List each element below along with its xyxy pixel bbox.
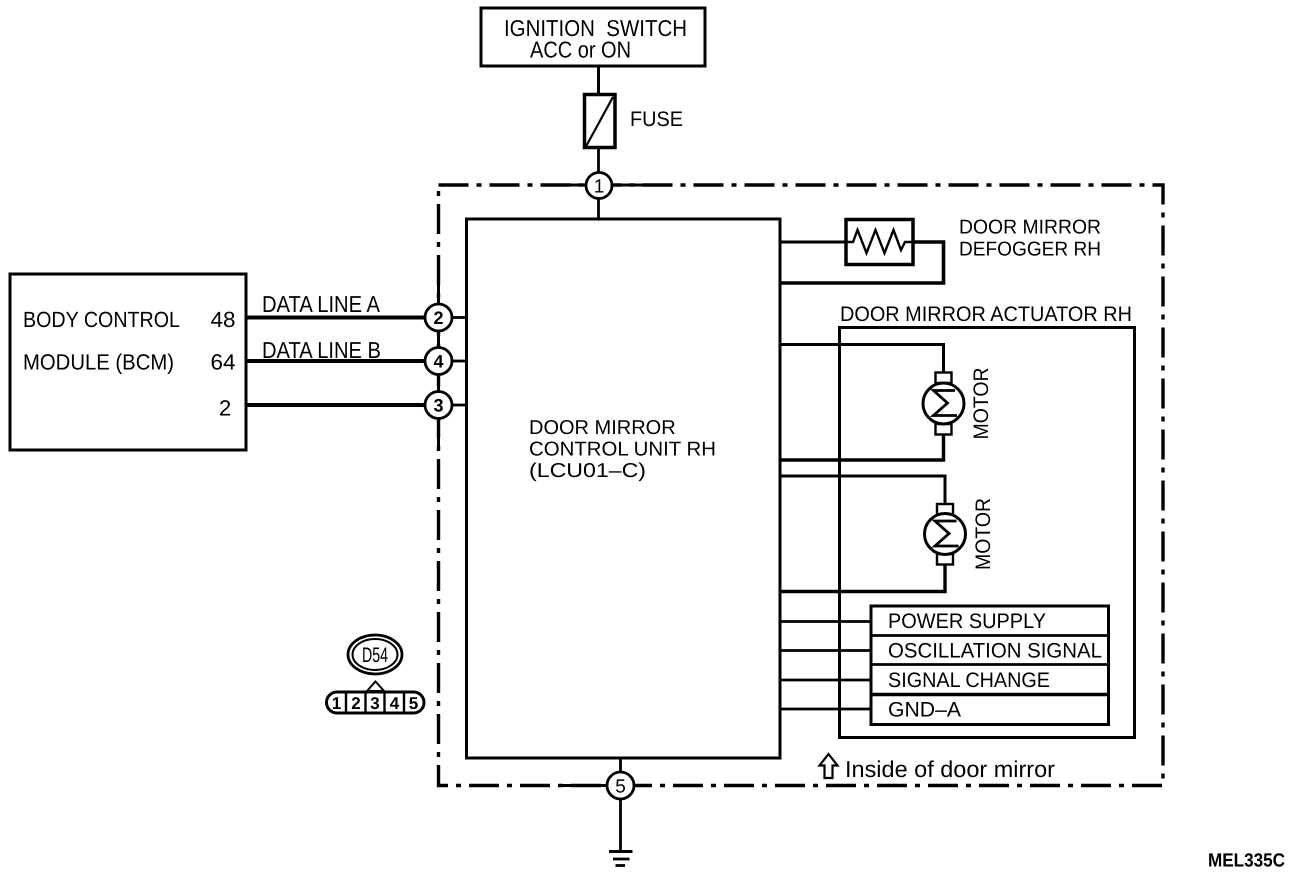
- svg-text:1: 1: [594, 177, 605, 198]
- svg-text:64: 64: [211, 350, 236, 375]
- svg-text:POWER SUPPLY: POWER SUPPLY: [888, 610, 1046, 633]
- svg-text:3: 3: [433, 396, 443, 416]
- node 4: [425, 348, 452, 375]
- wire control unit to SIGNAL CHANGE: [780, 679, 871, 682]
- door mirror boundary (dash-dot): [439, 185, 1164, 786]
- svg-text:(LCU01–C): (LCU01–C): [529, 460, 646, 482]
- connector D54: [348, 635, 402, 674]
- svg-text:2: 2: [433, 308, 443, 328]
- fuse: [585, 95, 684, 148]
- ground: [609, 852, 633, 866]
- defogger resistor: [846, 220, 913, 265]
- wire node 2 to control unit: [452, 316, 467, 319]
- wire node 4 to control unit: [452, 360, 467, 363]
- svg-text:Inside of door mirror: Inside of door mirror: [845, 756, 1055, 782]
- svg-text:DATA LINE A: DATA LINE A: [262, 291, 381, 317]
- label DOOR MIRROR DEFOGGER RH: [959, 217, 1101, 261]
- svg-text:2: 2: [351, 694, 360, 713]
- wire control unit to motor 2: [780, 476, 945, 504]
- wire node 5 to ground: [619, 799, 622, 852]
- node 2: [425, 304, 452, 331]
- boundary solid stubs at node 1: [560, 184, 586, 187]
- wire motor 2 return: [780, 565, 945, 592]
- svg-text:MOTOR: MOTOR: [972, 498, 995, 570]
- svg-text:48: 48: [211, 307, 236, 332]
- wire BCM 2 to node 3: [246, 403, 425, 407]
- svg-text:OSCILLATION SIGNAL: OSCILLATION SIGNAL: [888, 640, 1102, 663]
- svg-text:ACC or ON: ACC or ON: [530, 37, 631, 63]
- svg-text:DOOR MIRROR ACTUATOR RH: DOOR MIRROR ACTUATOR RH: [840, 303, 1132, 326]
- wire control unit to GND-A: [780, 708, 871, 711]
- wire node 3 to control unit: [452, 404, 467, 407]
- wire control unit to motor 1: [780, 345, 944, 373]
- svg-text:DATA LINE B: DATA LINE B: [262, 337, 381, 363]
- svg-text:GND–A: GND–A: [888, 699, 961, 722]
- motor M2: [925, 504, 966, 565]
- connector pin row 1-5: [327, 682, 425, 714]
- ignition switch box: [481, 8, 705, 66]
- wire control unit to OSCILLATION SIGNAL: [780, 649, 871, 652]
- svg-text:SIGNAL CHANGE: SIGNAL CHANGE: [888, 669, 1050, 692]
- inside of door mirror note: [820, 754, 1056, 782]
- wire control unit to POWER SUPPLY: [780, 620, 871, 623]
- svg-text:1: 1: [332, 694, 341, 713]
- wire BCM 48 to node 2: [246, 316, 425, 320]
- signal table: [871, 606, 1109, 725]
- node 1: [586, 173, 612, 220]
- svg-text:DOOR MIRROR: DOOR MIRROR: [959, 217, 1101, 239]
- wire defogger return loop: [780, 242, 944, 283]
- body control module box: [10, 274, 246, 450]
- svg-text:3: 3: [370, 694, 379, 713]
- svg-text:MOTOR: MOTOR: [970, 368, 993, 440]
- wire control unit to defogger: [780, 241, 846, 244]
- boundary solid stubs at node 5: [562, 784, 607, 787]
- svg-text:DOOR MIRROR: DOOR MIRROR: [529, 417, 676, 439]
- wire motor 1 return: [780, 435, 944, 461]
- svg-text:DEFOGGER RH: DEFOGGER RH: [959, 239, 1101, 261]
- svg-text:BODY CONTROL: BODY CONTROL: [23, 307, 180, 332]
- svg-text:MEL335C: MEL335C: [1208, 851, 1285, 872]
- svg-text:D54: D54: [362, 644, 388, 667]
- door mirror control unit box: [467, 219, 781, 758]
- wire fuse to node 1: [597, 148, 600, 173]
- boundary solid segment around connector nodes: [437, 283, 440, 446]
- motor M1: [923, 373, 964, 435]
- svg-text:FUSE: FUSE: [630, 108, 683, 131]
- svg-text:CONTROL UNIT RH: CONTROL UNIT RH: [529, 439, 716, 461]
- svg-text:2: 2: [219, 396, 231, 421]
- svg-text:4: 4: [390, 694, 400, 713]
- wire ignition switch to fuse: [597, 66, 600, 95]
- wire BCM 64 to node 4: [246, 359, 425, 363]
- node 3: [425, 392, 452, 419]
- svg-text:MODULE (BCM): MODULE (BCM): [23, 350, 174, 375]
- node 5: [607, 758, 634, 799]
- svg-text:4: 4: [433, 352, 443, 372]
- svg-text:5: 5: [409, 694, 418, 713]
- door mirror actuator box: [840, 328, 1135, 738]
- svg-text:5: 5: [615, 777, 626, 798]
